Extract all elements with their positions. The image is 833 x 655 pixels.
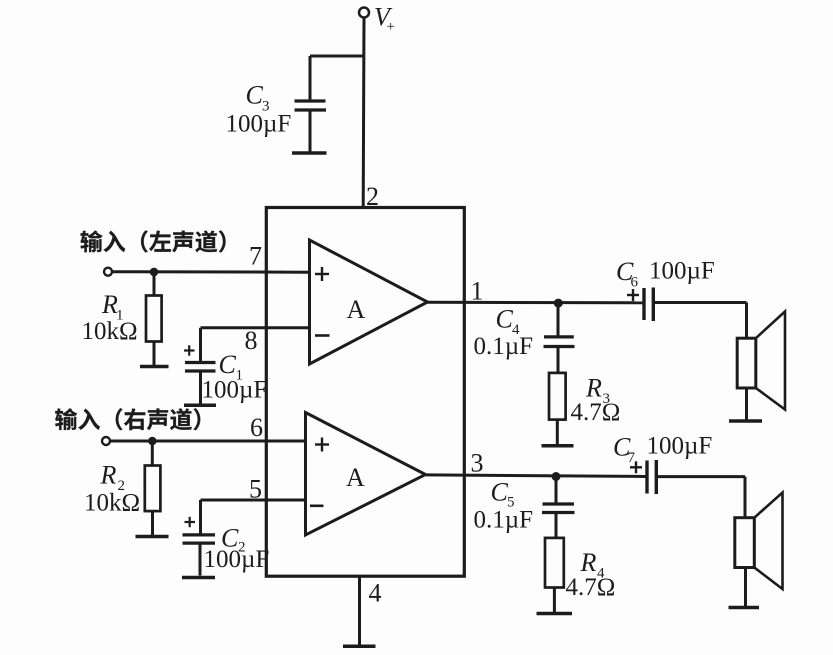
resistor R4	[545, 538, 564, 588]
terminal input left	[104, 268, 112, 276]
svg-text:+: +	[387, 19, 395, 35]
svg-text:4.7Ω: 4.7Ω	[566, 574, 616, 601]
label C6	[616, 257, 639, 291]
wire pin 8 to op-amp	[201, 326, 310, 329]
label R1	[101, 290, 124, 324]
resistor R1	[146, 296, 162, 342]
capacitor C1 plus	[184, 345, 195, 355]
node left input junction	[150, 268, 159, 277]
svg-text:2: 2	[366, 182, 379, 211]
ground R1	[140, 365, 169, 369]
IC U1 body	[266, 208, 464, 577]
svg-text:100µF: 100µF	[647, 433, 713, 460]
capacitor C1	[185, 363, 216, 405]
wire C1 top lead	[199, 328, 202, 362]
svg-text:C: C	[496, 305, 514, 334]
svg-text:100µF: 100µF	[649, 258, 715, 285]
capacitor C6 plus	[627, 289, 639, 301]
wire C4 top lead	[557, 303, 560, 336]
node output 1 junction	[554, 299, 563, 308]
capacitor C4	[544, 337, 575, 373]
wire R4 bottom lead	[553, 588, 556, 613]
svg-text:10kΩ: 10kΩ	[82, 318, 138, 345]
wire input right to pin 6	[110, 440, 306, 443]
svg-text:C: C	[219, 350, 237, 379]
node right input junction	[148, 437, 157, 446]
capacitor C6	[644, 288, 653, 322]
capacitor C2 plus	[185, 517, 196, 527]
svg-text:7: 7	[249, 241, 262, 270]
svg-text:A: A	[347, 295, 366, 324]
wire V+ to pin 2	[362, 18, 366, 208]
svg-text:0.1µF: 0.1µF	[474, 507, 534, 534]
ground speaker LS1	[729, 419, 762, 423]
label R4	[580, 548, 606, 582]
ground R2	[136, 535, 169, 539]
svg-text:4: 4	[369, 579, 382, 608]
ground speaker LS2	[729, 606, 760, 610]
svg-text:0.1µF: 0.1µF	[474, 333, 534, 360]
wire output 3	[426, 475, 646, 477]
svg-text:A: A	[346, 463, 365, 492]
node output 3 junction	[552, 472, 561, 481]
wire output 1	[428, 301, 645, 305]
wire C6 to speaker 1	[655, 303, 747, 339]
svg-text:C: C	[246, 81, 264, 110]
svg-text:8: 8	[245, 326, 258, 355]
wire C2 top lead	[199, 500, 202, 535]
ground pin 4	[343, 645, 376, 649]
svg-text:100µF: 100µF	[226, 111, 292, 138]
label C1	[219, 350, 244, 384]
ground C2	[182, 576, 215, 580]
svg-text:6: 6	[631, 275, 639, 291]
svg-text:5: 5	[249, 475, 262, 504]
svg-text:1: 1	[471, 277, 484, 306]
op-amp U1A	[310, 240, 428, 364]
label C5	[491, 478, 515, 511]
svg-text:R: R	[100, 461, 117, 490]
wire C5 top lead	[555, 476, 558, 502]
resistor R2	[145, 466, 161, 512]
label C4	[496, 305, 521, 338]
op-amp U1B	[306, 413, 426, 536]
label C7	[613, 433, 636, 467]
label V+	[374, 3, 395, 36]
wire R2 bottom lead	[151, 511, 154, 535]
wire R1 top lead	[153, 272, 156, 296]
wire C3 branch	[310, 55, 364, 58]
svg-text:10kΩ: 10kΩ	[84, 490, 140, 517]
capacitor C7	[647, 460, 656, 494]
capacitor C2	[183, 535, 216, 576]
ground C3	[292, 151, 327, 155]
svg-text:6: 6	[250, 413, 263, 442]
terminal V+	[359, 8, 369, 18]
svg-text:4.7Ω: 4.7Ω	[571, 399, 621, 426]
svg-text:7: 7	[628, 450, 636, 466]
svg-text:3: 3	[471, 449, 484, 478]
terminal input right	[102, 437, 110, 445]
svg-text:100µF: 100µF	[204, 546, 270, 573]
label C3	[246, 81, 270, 115]
wire pin 5 to op-amp	[201, 499, 306, 502]
svg-text:R: R	[580, 548, 597, 577]
speaker LS2	[735, 493, 783, 607]
svg-text:100µF: 100µF	[202, 377, 268, 404]
capacitor C5	[542, 504, 575, 538]
wire pin 4 to ground	[358, 576, 361, 645]
wire R1 bottom lead	[153, 342, 156, 366]
label C2	[221, 524, 246, 556]
svg-text:C: C	[491, 478, 509, 507]
ground R4	[537, 612, 573, 616]
capacitor C3	[295, 56, 327, 152]
resistor R3	[549, 373, 566, 420]
wire R3 bottom lead	[556, 420, 559, 445]
label R2	[100, 461, 126, 495]
wire R2 top lead	[151, 441, 154, 466]
wire input left to pin 7	[112, 270, 310, 274]
label input right channel	[55, 408, 200, 430]
speaker LS1	[737, 312, 785, 420]
label R3	[585, 374, 610, 408]
capacitor C7 plus	[630, 461, 642, 473]
ground R3	[542, 444, 574, 448]
ground C1	[184, 404, 216, 408]
label input left channel	[80, 230, 225, 252]
wire C7 to speaker 2	[658, 477, 745, 518]
